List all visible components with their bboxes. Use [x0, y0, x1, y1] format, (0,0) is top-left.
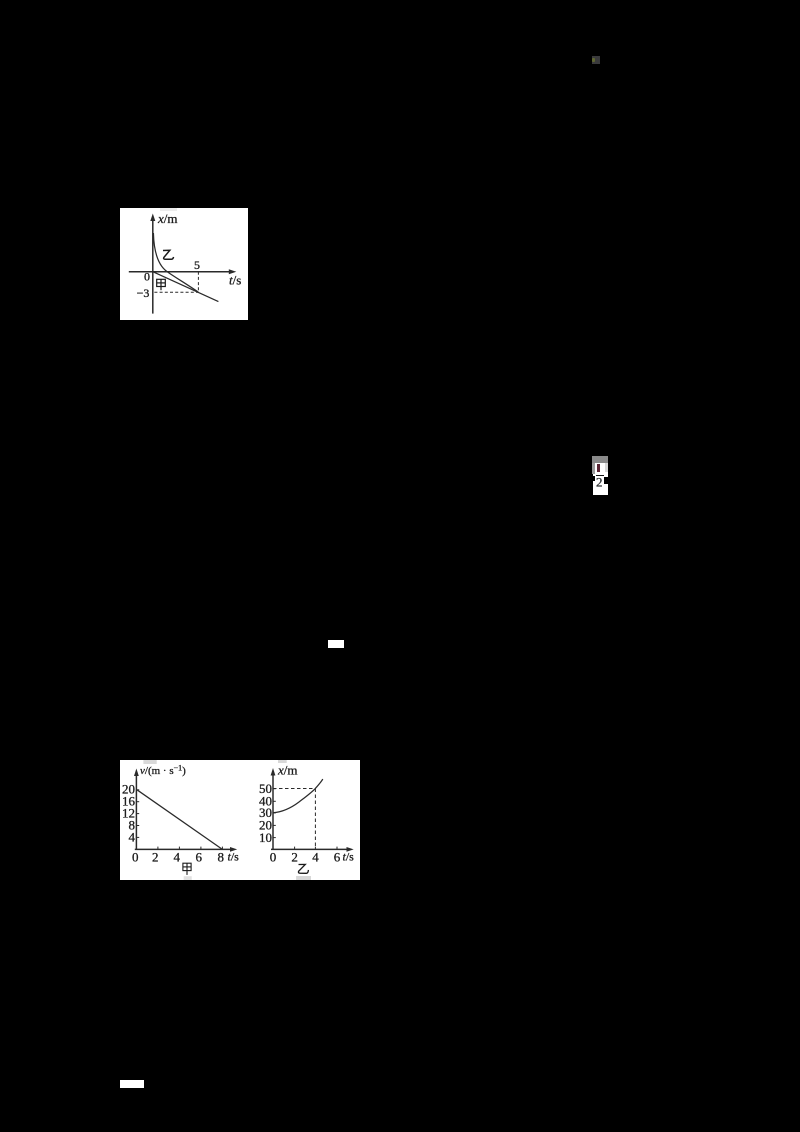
- x axis: [129, 271, 232, 273]
- x axis: [135, 848, 233, 850]
- svg-text:2: 2: [596, 476, 603, 488]
- x axis arrowhead: [347, 847, 354, 852]
- svg-text:x/m: x/m: [277, 763, 298, 778]
- svg-text:t/s: t/s: [229, 273, 241, 288]
- y axis: [152, 219, 154, 314]
- svg-text:6: 6: [196, 850, 203, 865]
- glyph jia (line label): [157, 279, 166, 290]
- svg-text:4: 4: [312, 850, 319, 865]
- dashed vertical at t=5: [197, 272, 199, 293]
- numeral 2: [595, 476, 607, 488]
- y axis arrowhead: [150, 214, 155, 222]
- y axis: [272, 774, 274, 850]
- grey smudge under jia: [184, 876, 192, 880]
- dashed horizontal at x=50: [273, 788, 315, 790]
- svg-text:0: 0: [270, 850, 277, 865]
- svg-text:8: 8: [218, 850, 225, 865]
- svg-text:−3: −3: [137, 286, 150, 300]
- svg-text:5: 5: [194, 258, 200, 272]
- grey smudge under yi: [296, 876, 311, 880]
- white rect (middle): [328, 640, 344, 648]
- line jia (straight): [153, 272, 219, 302]
- small grey square (top right): [592, 56, 600, 64]
- svg-text:0: 0: [144, 270, 150, 284]
- x ticks: [295, 847, 337, 850]
- svg-text:6: 6: [334, 850, 341, 865]
- svg-text:4: 4: [129, 829, 136, 844]
- svg-text:2: 2: [291, 850, 298, 865]
- graph box 1: x-t graph (top-left): [120, 208, 248, 320]
- olive mark: [592, 58, 595, 62]
- svg-text:t/s: t/s: [343, 850, 355, 864]
- x axis arrowhead: [230, 847, 237, 852]
- dashed horizontal at x=-3: [154, 291, 198, 293]
- x axis: [271, 848, 350, 850]
- curve yi: [153, 233, 198, 292]
- svg-text:2: 2: [152, 850, 159, 865]
- glyph yi (curve label): [163, 250, 174, 259]
- black notch left of fraction: [592, 476, 596, 481]
- grey smudge top edge left: [143, 760, 156, 764]
- y axis arrowhead: [134, 769, 139, 777]
- x ticks: [158, 847, 223, 850]
- graph box 2: two graphs (bottom): [120, 760, 360, 880]
- x-t curve: [273, 779, 323, 813]
- glyph yi below right graph: [298, 864, 308, 873]
- grey smudge top edge right: [278, 760, 287, 763]
- svg-text:4: 4: [174, 850, 181, 865]
- faint smudge top edge: [160, 208, 177, 211]
- numeral 1 (dark red): [597, 464, 600, 472]
- svg-text:10: 10: [259, 830, 272, 845]
- x axis arrowhead: [229, 269, 237, 274]
- fraction bar: [596, 475, 604, 477]
- svg-text:v/(m · s−1): v/(m · s−1): [140, 764, 186, 778]
- fraction 1/2 fragment (right side): [592, 456, 608, 463]
- y ticks: [136, 790, 139, 838]
- v-t line: [137, 790, 222, 850]
- y axis: [135, 774, 137, 849]
- y ticks: [273, 789, 276, 838]
- black notch right of fraction: [604, 477, 608, 483]
- svg-text:0: 0: [132, 850, 139, 865]
- glyph jia below left graph: [183, 863, 191, 875]
- y axis arrowhead: [271, 768, 276, 776]
- dashed vertical at t=4: [314, 789, 316, 850]
- white rect (bottom left): [120, 1080, 144, 1089]
- svg-text:x/m: x/m: [157, 211, 178, 226]
- svg-text:t/s: t/s: [228, 850, 240, 864]
